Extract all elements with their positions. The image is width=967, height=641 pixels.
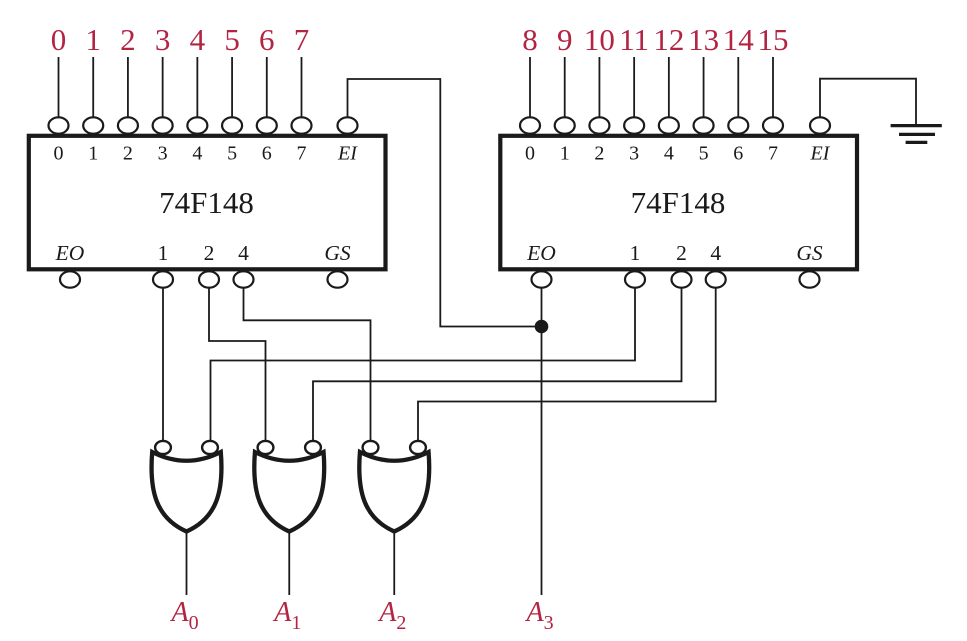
- wire U2 pin2 to gate G2 right input: [313, 288, 682, 441]
- svg-text:A2: A2: [377, 597, 406, 634]
- wire input 12 stub: [668, 57, 670, 118]
- wire input 14 stub: [737, 57, 739, 118]
- svg-text:74F148: 74F148: [159, 185, 254, 220]
- wire gate G1 output: [186, 532, 188, 596]
- svg-text:8: 8: [522, 22, 538, 57]
- wire U2 EI to ground: [820, 79, 916, 125]
- svg-text:1: 1: [85, 22, 101, 57]
- U1 pin 1 bubble (bottom): [153, 271, 173, 287]
- gate G2 right input bubble: [305, 441, 321, 454]
- U1 pin 0 bubble: [49, 117, 69, 133]
- U1 pin 3 bubble: [153, 117, 173, 133]
- U1 pin 4 bubble (bottom): [234, 271, 254, 287]
- svg-text:11: 11: [619, 22, 649, 57]
- svg-text:4: 4: [190, 22, 206, 57]
- wire input 10 stub: [598, 57, 600, 118]
- svg-text:1: 1: [158, 241, 169, 265]
- svg-text:4: 4: [238, 241, 249, 265]
- ground: [891, 126, 942, 143]
- wire U1 pin4 to gate G3 left input: [244, 288, 371, 441]
- wire input 6 stub: [266, 57, 268, 118]
- U2 pin 4 bubble (bottom): [706, 271, 726, 287]
- svg-text:1: 1: [560, 143, 570, 165]
- OR gate G2 body: [254, 452, 324, 532]
- U2 pin 4 bubble: [659, 117, 679, 133]
- U2 pin 1 bubble: [555, 117, 575, 133]
- svg-text:4: 4: [664, 143, 674, 165]
- svg-text:7: 7: [296, 143, 306, 165]
- svg-text:EO: EO: [55, 241, 85, 265]
- junction dot on U2 EO net: [535, 320, 549, 334]
- wire input 3 stub: [162, 57, 164, 118]
- svg-text:4: 4: [710, 241, 721, 265]
- svg-text:0: 0: [54, 143, 64, 165]
- svg-text:6: 6: [733, 143, 743, 165]
- svg-text:EI: EI: [337, 143, 358, 165]
- gate G2 left input bubble: [258, 441, 274, 454]
- U2 pin 1 bubble (bottom): [625, 271, 645, 287]
- svg-text:12: 12: [653, 22, 684, 57]
- wire U2 EO to output A3: [541, 288, 543, 595]
- svg-text:2: 2: [676, 241, 687, 265]
- U2 pin GS bubble (bottom): [800, 271, 820, 287]
- wire input 4 stub: [196, 57, 198, 118]
- svg-text:0: 0: [51, 22, 67, 57]
- svg-text:13: 13: [688, 22, 719, 57]
- wire U1 pin1 to gate G1 left input: [162, 288, 164, 441]
- 74F148 encoder U2 body: [500, 136, 857, 269]
- wire U1 pin2 to gate G2 left input: [209, 288, 266, 441]
- svg-text:1: 1: [88, 143, 98, 165]
- svg-text:9: 9: [557, 22, 573, 57]
- wire input 15 stub: [772, 57, 774, 118]
- 74F148 encoder U1 body: [29, 136, 386, 269]
- U1 pin EO bubble (bottom): [60, 271, 80, 287]
- wire input 2 stub: [127, 57, 129, 118]
- wire input 9 stub: [564, 57, 566, 118]
- svg-text:1: 1: [630, 241, 641, 265]
- wire input 11 stub: [633, 57, 635, 118]
- svg-text:A1: A1: [272, 597, 301, 634]
- svg-text:2: 2: [120, 22, 136, 57]
- U1 pin EI bubble: [338, 117, 358, 133]
- svg-text:6: 6: [259, 22, 275, 57]
- U1 pin GS bubble (bottom): [328, 271, 348, 287]
- U1 pin 2 bubble (bottom): [199, 271, 219, 287]
- svg-text:2: 2: [123, 143, 133, 165]
- gate G1 left input bubble: [155, 441, 171, 454]
- wire input 7 stub: [300, 57, 302, 118]
- wire gate G3 output: [393, 532, 395, 596]
- U2 pin 3 bubble: [624, 117, 644, 133]
- svg-text:7: 7: [294, 22, 310, 57]
- svg-text:0: 0: [525, 143, 535, 165]
- wire U1 EI to U2 EO cascade: [348, 79, 542, 327]
- gate G3 right input bubble: [410, 441, 426, 454]
- svg-text:A0: A0: [170, 597, 199, 634]
- gate G1 right input bubble: [202, 441, 218, 454]
- U2 pin 0 bubble: [520, 117, 540, 133]
- wire input 0 stub: [58, 57, 60, 118]
- OR gate G3 body: [359, 452, 429, 532]
- U2 pin EI bubble: [810, 117, 830, 133]
- svg-text:3: 3: [158, 143, 168, 165]
- wire gate G2 output: [288, 532, 290, 596]
- U2 pin 7 bubble: [763, 117, 783, 133]
- svg-text:74F148: 74F148: [631, 185, 726, 220]
- svg-text:6: 6: [262, 143, 272, 165]
- svg-text:3: 3: [155, 22, 171, 57]
- wire input 8 stub: [529, 57, 531, 118]
- U1 pin 5 bubble: [222, 117, 242, 133]
- U1 pin 7 bubble: [291, 117, 311, 133]
- svg-text:5: 5: [699, 143, 709, 165]
- wire input 5 stub: [231, 57, 233, 118]
- svg-text:7: 7: [768, 143, 778, 165]
- svg-text:A3: A3: [525, 597, 554, 634]
- OR gate G1 body: [152, 452, 222, 532]
- wire input 1 stub: [92, 57, 94, 118]
- svg-text:3: 3: [629, 143, 639, 165]
- svg-text:10: 10: [584, 22, 615, 57]
- svg-text:GS: GS: [796, 241, 823, 265]
- svg-text:14: 14: [723, 22, 755, 57]
- svg-text:15: 15: [757, 22, 788, 57]
- svg-text:EO: EO: [526, 241, 556, 265]
- svg-text:GS: GS: [324, 241, 351, 265]
- U2 pin 2 bubble: [589, 117, 609, 133]
- svg-text:5: 5: [224, 22, 240, 57]
- U1 pin 6 bubble: [257, 117, 277, 133]
- U2 pin EO bubble (bottom): [532, 271, 552, 287]
- U2 pin 2 bubble (bottom): [672, 271, 692, 287]
- svg-text:2: 2: [594, 143, 604, 165]
- U1 pin 2 bubble: [118, 117, 138, 133]
- U1 pin 1 bubble: [83, 117, 103, 133]
- U2 pin 6 bubble: [728, 117, 748, 133]
- wire U2 pin1 to gate G1 right input: [211, 288, 636, 441]
- svg-text:EI: EI: [810, 143, 831, 165]
- U2 pin 5 bubble: [694, 117, 714, 133]
- svg-text:4: 4: [192, 143, 202, 165]
- svg-text:5: 5: [227, 143, 237, 165]
- wire U2 pin4 to gate G3 right input: [418, 288, 716, 441]
- svg-text:2: 2: [204, 241, 215, 265]
- gate G3 left input bubble: [363, 441, 379, 454]
- U1 pin 4 bubble: [187, 117, 207, 133]
- wire input 13 stub: [703, 57, 705, 118]
